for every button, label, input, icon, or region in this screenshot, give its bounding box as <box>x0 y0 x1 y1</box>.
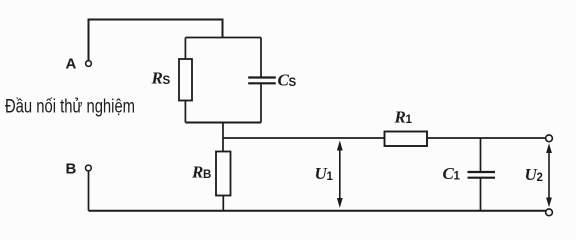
svg-text:1: 1 <box>327 171 334 183</box>
svg-text:B: B <box>203 169 211 181</box>
wire from terminal B down to bottom rail <box>88 171 90 211</box>
svg-text:R: R <box>191 163 203 182</box>
svg-text:A: A <box>66 56 77 73</box>
wire: block right branch upper <box>260 38 262 78</box>
wire: block left branch lower <box>184 101 186 123</box>
svg-text:R: R <box>151 69 163 88</box>
wire: C1 branch upper <box>480 138 482 172</box>
terminal output bottom <box>546 209 553 216</box>
wire: bottom rail <box>89 210 550 212</box>
resistor R1 <box>385 132 428 147</box>
wire: C1 branch lower <box>480 178 482 211</box>
wire: block left branch upper <box>184 38 186 60</box>
svg-text:1: 1 <box>406 114 413 126</box>
resistor RS <box>179 59 192 101</box>
svg-text:1: 1 <box>454 171 461 183</box>
svg-text:B: B <box>66 161 77 178</box>
capacitor C1 <box>468 172 496 178</box>
capacitor CS <box>248 78 276 84</box>
wire: R1 to right terminal <box>427 137 549 139</box>
wire: RB to bottom rail <box>222 196 224 211</box>
svg-text:S: S <box>163 75 171 87</box>
svg-text:R: R <box>394 108 406 127</box>
terminal A <box>86 61 92 67</box>
svg-text:Đầu nối thử nghiệm: Đầu nối thử nghiệm <box>5 97 135 118</box>
voltage arrow U1 <box>337 141 343 209</box>
terminal B <box>86 165 92 171</box>
resistor RB <box>216 152 231 196</box>
wire: block bottom <box>185 122 261 124</box>
wire from terminal A up and across to RS/CS block <box>89 20 223 61</box>
wire: middle node rail to R1 <box>223 137 385 139</box>
svg-text:S: S <box>289 77 297 89</box>
terminal output top <box>546 135 553 142</box>
wire: block right branch lower <box>260 84 262 123</box>
wire: block bottom down through node to RB <box>222 123 224 152</box>
wire: RS/CS parallel block top <box>185 37 261 39</box>
voltage arrow U2 <box>546 143 552 207</box>
svg-text:2: 2 <box>537 172 543 184</box>
